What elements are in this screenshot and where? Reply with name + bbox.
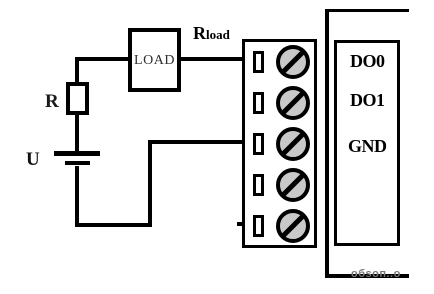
wire bottom horizontal [75,223,152,227]
wire battery down [75,166,79,227]
screw 2 [275,85,311,121]
label Rload [193,23,230,44]
wire top-left from resistor corner to LOAD [75,57,130,61]
label GND [348,136,387,157]
module outline (open right) [325,9,409,278]
watermark [351,268,401,280]
screw 1 [275,44,311,80]
terminal block [242,39,317,248]
terminal square 3 [253,133,264,155]
wire vertical into resistor R [75,57,79,85]
wire middle horizontal to terminal 3 [148,140,244,144]
label DO1 [350,90,385,111]
battery U long plate [54,151,100,156]
screw 4 [275,167,311,203]
terminal square 1 [253,51,264,73]
screw 5 [275,208,311,244]
screw 3 [275,126,311,162]
label R [45,91,59,113]
label DO0 [350,51,385,72]
wire vertical up to middle line [148,140,152,227]
stub at terminal 5 [237,222,242,226]
terminal square 4 [253,174,264,196]
resistor R [66,82,89,115]
terminal square 5 [253,215,264,237]
terminal square 2 [253,92,264,114]
load box LOAD [128,28,181,92]
wire LOAD to terminal 1 [179,57,244,61]
battery U short plate [65,161,90,165]
module inner box [334,40,400,246]
label U [26,149,40,171]
wire resistor to battery [75,114,79,152]
